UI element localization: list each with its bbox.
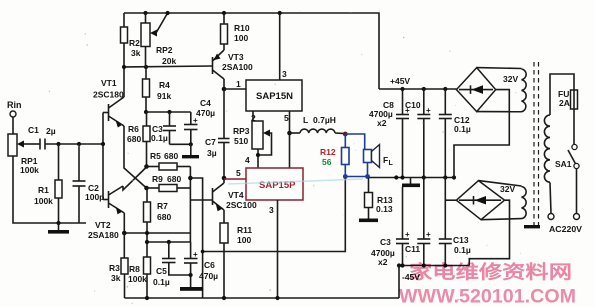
wire bottom rail <box>125 297 400 299</box>
winding primary <box>544 115 550 182</box>
wire bridge AC lower <box>479 181 522 186</box>
capacitor C7 <box>218 138 230 140</box>
capacitor C9 <box>402 187 404 239</box>
svg-text:R5: R5 <box>150 151 161 161</box>
svg-text:32V: 32V <box>503 74 518 84</box>
svg-text:3µ: 3µ <box>207 148 217 158</box>
wire pin5 output column <box>289 111 291 168</box>
wire 0V mid rail <box>368 177 454 179</box>
IC U1 SAP15N <box>246 80 302 111</box>
wire RP1 bottom to ground wire <box>13 156 86 223</box>
svg-text:2SA100: 2SA100 <box>222 62 253 72</box>
svg-text:VT4: VT4 <box>228 190 244 200</box>
wire VT2 collector row <box>124 232 190 234</box>
bridge rectifier upper <box>456 68 495 112</box>
svg-text:2µ: 2µ <box>46 126 56 136</box>
svg-text:0.7µH: 0.7µH <box>313 115 336 125</box>
capacitor C11 <box>423 178 425 240</box>
node input junction C2 <box>77 142 81 146</box>
svg-text:AC220V: AC220V <box>549 224 582 234</box>
capacitor C4 <box>190 112 192 125</box>
svg-text:家电维修资料网: 家电维修资料网 <box>409 262 572 283</box>
svg-text:R10: R10 <box>234 23 250 33</box>
svg-text:SA1: SA1 <box>555 159 572 169</box>
core dashed <box>533 62 535 230</box>
wire -45V rail <box>399 265 469 267</box>
switch SA1 <box>573 109 575 144</box>
svg-text:2SA180: 2SA180 <box>88 230 119 240</box>
node VT4 collector <box>223 178 225 183</box>
wire node to long drop <box>190 178 202 298</box>
svg-text:R12: R12 <box>320 147 336 157</box>
winding secondary upper <box>522 69 527 112</box>
wire y112 <box>146 111 191 113</box>
svg-text:470µ: 470µ <box>199 271 218 281</box>
capacitor C10 <box>423 89 425 115</box>
potentiometer RP1 <box>8 134 17 156</box>
resistor R2 <box>123 13 125 27</box>
resistor R1 <box>58 144 60 180</box>
node R4 bottom <box>144 110 148 114</box>
svg-text:RP2: RP2 <box>156 45 173 55</box>
wire +45V rail <box>379 88 456 90</box>
svg-text:C3: C3 <box>380 237 391 247</box>
svg-text:+: + <box>193 250 198 259</box>
wire VT2 emitter to cross <box>123 167 147 190</box>
wire -45V down to bottom rail <box>398 266 400 299</box>
ground mid rail <box>410 178 412 184</box>
svg-text:0.13: 0.13 <box>376 204 393 214</box>
svg-text:x2: x2 <box>377 118 387 128</box>
resistor R11 <box>220 223 228 243</box>
resistor R12 <box>344 134 346 148</box>
svg-text:R7: R7 <box>157 201 168 211</box>
resistor R13 <box>368 178 370 193</box>
svg-text:C6: C6 <box>204 260 215 270</box>
node ground junction <box>56 221 60 225</box>
svg-text:5: 5 <box>236 168 241 178</box>
transistor VT2 <box>103 199 109 201</box>
fuse FU <box>571 90 578 109</box>
wire VT3 collector to pin1 node <box>223 79 225 89</box>
capacitor C6 <box>190 242 192 259</box>
wire bridge lower left to -45 <box>445 199 456 201</box>
svg-text:+: + <box>426 106 431 115</box>
wire blue output top <box>345 134 364 150</box>
svg-text:C11: C11 <box>405 244 420 254</box>
wire VT3 node down to C7 <box>223 89 225 139</box>
svg-text:3k: 3k <box>111 273 121 283</box>
ground C5/C6 <box>180 287 203 291</box>
wire pin5 red <box>224 178 246 180</box>
svg-text:680: 680 <box>157 212 171 222</box>
wire y242 <box>147 241 191 243</box>
wire pin3 to bottom rail <box>277 200 279 298</box>
node mid rail junctions <box>400 175 404 179</box>
wire blue output bottom <box>345 176 368 178</box>
svg-text:0.1µ: 0.1µ <box>454 124 471 134</box>
wire bridge AC upper <box>477 67 522 70</box>
svg-text:100k: 100k <box>20 165 39 175</box>
svg-text:R4: R4 <box>159 80 170 90</box>
svg-text:R11: R11 <box>237 225 252 235</box>
svg-text:91k: 91k <box>157 91 171 101</box>
resistor R5 <box>147 166 160 168</box>
potentiometer RP2 <box>143 11 147 15</box>
wire VT1 collector up <box>123 67 125 97</box>
bridge rectifier lower <box>456 181 504 220</box>
svg-text:R3: R3 <box>109 263 120 273</box>
svg-text:+: + <box>405 230 410 239</box>
inductor L <box>290 132 301 134</box>
resistor R9 <box>147 187 160 189</box>
wire VT4 base <box>190 199 212 201</box>
svg-text:20k: 20k <box>162 56 176 66</box>
wire bridge upper return <box>454 90 509 178</box>
wire switch to terminal <box>576 169 578 214</box>
svg-text:510: 510 <box>234 136 248 146</box>
wire RP3 bottom to pin4 <box>257 149 259 168</box>
svg-text:680: 680 <box>164 151 178 161</box>
svg-text:C7: C7 <box>205 137 216 147</box>
capacitor C5 <box>168 242 170 259</box>
node +45V rail junctions <box>400 87 404 91</box>
svg-text:R9: R9 <box>152 174 163 184</box>
svg-text:R6: R6 <box>128 124 139 134</box>
potentiometer RP3 <box>252 121 263 149</box>
svg-text:680: 680 <box>127 134 141 144</box>
resistor R4 <box>145 67 147 79</box>
capacitor C2 <box>78 144 80 181</box>
wire primary bottom to terminal <box>550 183 551 214</box>
svg-text:470µ: 470µ <box>196 108 215 118</box>
wire common base line <box>102 113 104 200</box>
wire primary top to fuse <box>550 74 574 115</box>
wire pin2 to RP3 <box>252 111 254 121</box>
svg-text:56: 56 <box>322 157 332 167</box>
wire pin1 <box>224 88 246 90</box>
wire Rin to RP1 <box>12 117 14 134</box>
wire VT2 collector down <box>123 213 125 233</box>
svg-text:5: 5 <box>284 113 289 123</box>
svg-text:4: 4 <box>245 155 250 165</box>
svg-text:+45V: +45V <box>390 76 410 86</box>
svg-text:VT3: VT3 <box>228 52 244 62</box>
svg-text:VT1: VT1 <box>101 78 117 88</box>
wire RP2 bottom <box>145 47 147 68</box>
wire x190 vertical down <box>189 188 191 242</box>
resistor R6 <box>146 112 148 126</box>
IC U2 SAP15P <box>246 168 303 200</box>
svg-text:1: 1 <box>236 79 241 89</box>
node R6 bottom / R5 left <box>144 164 149 169</box>
svg-text:C13: C13 <box>453 235 469 245</box>
svg-text:L: L <box>303 115 308 125</box>
svg-text:0.1µ: 0.1µ <box>153 277 170 287</box>
svg-text:C10: C10 <box>405 100 421 110</box>
node input junction R1 <box>56 142 60 146</box>
svg-text:x2: x2 <box>378 257 388 267</box>
capacitor C3 <box>169 112 171 126</box>
svg-text:2SC100: 2SC100 <box>226 200 257 210</box>
svg-text:3: 3 <box>282 69 287 79</box>
svg-text:100p: 100p <box>85 192 104 202</box>
svg-text:R8: R8 <box>129 264 140 274</box>
node output <box>343 132 348 137</box>
resistor R8 <box>146 242 148 257</box>
ground C3/C4 <box>190 144 192 155</box>
svg-text:100k: 100k <box>128 274 147 284</box>
wire bridge lower return <box>469 200 509 265</box>
svg-text:680: 680 <box>167 174 181 184</box>
wire feedback output to long vertical <box>203 179 346 252</box>
svg-text:2A: 2A <box>559 98 570 108</box>
ground input <box>58 223 60 230</box>
svg-text:Rin: Rin <box>7 100 22 110</box>
svg-text:C4: C4 <box>200 98 211 108</box>
svg-text:0.1µ: 0.1µ <box>151 133 168 143</box>
wire R5/R9 right junction <box>189 167 191 189</box>
svg-text:C1: C1 <box>28 125 39 135</box>
ground core <box>524 225 540 228</box>
wire C1 to bases node <box>45 143 103 145</box>
svg-text:100: 100 <box>234 33 248 43</box>
node R9 left <box>144 186 149 191</box>
svg-text:F: F <box>383 155 388 165</box>
svg-text:VT2: VT2 <box>95 220 111 230</box>
svg-text:R1: R1 <box>38 185 49 195</box>
transistor VT1 <box>103 112 109 114</box>
resistor R7 <box>146 188 148 202</box>
svg-text:100k: 100k <box>34 196 53 206</box>
speaker FL <box>364 150 372 163</box>
winding secondary lower <box>522 187 527 219</box>
wire VT4 emitter to R11 <box>223 210 225 223</box>
node AC terminals <box>548 214 554 220</box>
capacitor C13 <box>444 178 446 240</box>
svg-text:L: L <box>389 160 394 167</box>
svg-text:0.1µ: 0.1µ <box>454 245 471 255</box>
capacitor C8 <box>402 89 404 115</box>
svg-text:WWW.520101.COM: WWW.520101.COM <box>399 287 576 307</box>
node -45V junctions <box>400 263 404 267</box>
wire top rail <box>124 13 379 89</box>
wire VT1 emitter to cross <box>124 126 147 188</box>
faint scan line <box>228 179 363 184</box>
svg-text:+: + <box>426 230 431 239</box>
resistor R3 <box>123 233 125 258</box>
node -45V/bottom corner <box>397 263 401 267</box>
resistor R10 <box>222 11 226 15</box>
capacitor C12 <box>444 89 446 115</box>
svg-text:3: 3 <box>269 205 274 215</box>
transistor VT3 <box>212 57 214 74</box>
svg-text:SAP15N: SAP15N <box>256 91 293 102</box>
wire C3/C4 bottoms <box>170 143 191 145</box>
svg-text:R2: R2 <box>129 38 140 48</box>
svg-text:2SC180: 2SC180 <box>93 90 124 100</box>
svg-text:RP3: RP3 <box>233 126 250 136</box>
svg-text:100: 100 <box>237 235 251 245</box>
wire VT1 collector row to VT3 base <box>124 66 213 67</box>
svg-text:3k: 3k <box>131 48 141 58</box>
wire pin3 to top rail <box>279 13 281 80</box>
transistor VT4 <box>212 188 214 205</box>
svg-text:C5: C5 <box>156 266 167 276</box>
